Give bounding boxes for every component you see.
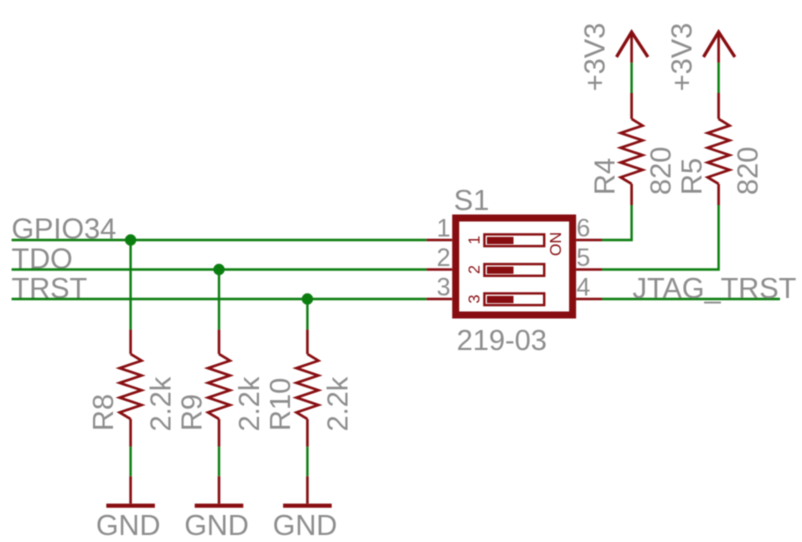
svg-text:+3V3: +3V3 — [580, 23, 612, 92]
svg-text:ON: ON — [548, 232, 565, 256]
pin 1 of S1 — [427, 239, 453, 242]
wire R5 to +3V3 — [717, 63, 719, 93]
node junction TDO — [213, 264, 224, 275]
pin 5 of S1 — [576, 268, 602, 271]
switch S1 body — [456, 218, 573, 315]
svg-text:R9: R9 — [176, 394, 208, 431]
svg-text:GND: GND — [184, 510, 248, 542]
node junction GPIO34 — [125, 234, 136, 245]
svg-text:R8: R8 — [88, 394, 120, 431]
svg-text:219-03: 219-03 — [457, 325, 547, 357]
node junction TRST — [302, 293, 313, 304]
ground symbol GND (R10) — [283, 476, 332, 505]
resistor R8 — [120, 330, 142, 447]
svg-text:R10: R10 — [265, 378, 297, 431]
wire net GPIO34 horizontal — [12, 239, 427, 241]
wire pin5 to R5 — [602, 205, 719, 270]
svg-text:1: 1 — [437, 215, 451, 243]
svg-text:4: 4 — [576, 274, 590, 302]
resistor R4 — [621, 93, 643, 205]
svg-text:+3V3: +3V3 — [667, 23, 699, 92]
pin 6 of S1 — [576, 239, 602, 242]
svg-text:820: 820 — [646, 147, 678, 195]
svg-text:2.2k: 2.2k — [234, 376, 266, 431]
ground symbol GND (R9) — [195, 476, 244, 505]
svg-text:2: 2 — [437, 244, 451, 272]
wire TRST vertical to R10 — [306, 299, 308, 330]
svg-text:3: 3 — [437, 274, 451, 302]
wire pin6 to R4 — [602, 205, 632, 240]
svg-text:R5: R5 — [677, 158, 709, 195]
power symbol +3V3 (R5) — [704, 32, 735, 63]
svg-text:JTAG_TRST: JTAG_TRST — [633, 273, 797, 305]
switch S1 slider 2 — [484, 264, 544, 276]
pin 3 of S1 — [427, 298, 453, 301]
svg-text:2.2k: 2.2k — [146, 376, 178, 431]
wire R4 to +3V3 — [630, 63, 632, 93]
svg-text:1: 1 — [467, 235, 484, 244]
ground symbol GND (R8) — [106, 476, 155, 505]
svg-text:GND: GND — [96, 510, 160, 542]
switch S1 slider 3 — [484, 293, 544, 305]
resistor R10 — [296, 330, 318, 447]
svg-text:R4: R4 — [590, 158, 622, 195]
svg-text:S1: S1 — [454, 185, 489, 217]
wire R8 to GND — [129, 447, 131, 477]
resistor R5 — [708, 93, 730, 205]
wire net TRST horizontal — [12, 298, 427, 300]
svg-text:2.2k: 2.2k — [322, 376, 354, 431]
wire net JTAG_TRST — [602, 298, 780, 300]
wire R10 to GND — [306, 447, 308, 477]
svg-text:2: 2 — [467, 265, 484, 274]
pin 2 of S1 — [427, 268, 453, 271]
svg-text:6: 6 — [576, 215, 590, 243]
svg-text:3: 3 — [467, 294, 484, 303]
svg-text:5: 5 — [576, 244, 590, 272]
wire TDO vertical to R9 — [218, 270, 220, 330]
svg-text:GND: GND — [273, 510, 337, 542]
resistor R9 — [208, 330, 230, 447]
svg-text:820: 820 — [733, 147, 765, 195]
switch S1 slider 1 — [484, 234, 544, 246]
wire R9 to GND — [218, 447, 220, 477]
wire net TDO horizontal — [12, 268, 427, 270]
power symbol +3V3 (R4) — [617, 32, 648, 63]
pin 4 of S1 — [576, 298, 602, 301]
wire GPIO34 vertical to R8 — [129, 240, 131, 330]
